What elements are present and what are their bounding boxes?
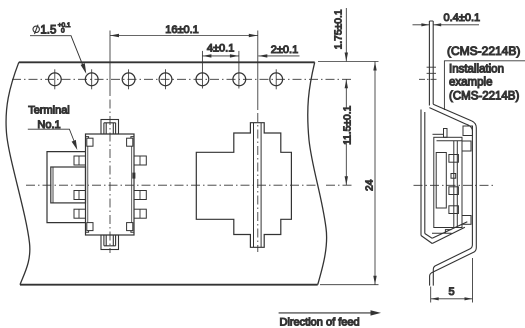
svg-text:0.4±0.1: 0.4±0.1 <box>444 12 481 24</box>
dimension 2±0.1 <box>258 55 299 57</box>
component 1 bottom stem <box>101 235 119 250</box>
side view: switch lever plate <box>436 153 446 209</box>
svg-text:24: 24 <box>364 179 375 191</box>
dimension 11.5±0.1 <box>345 79 347 185</box>
sprocket hole 1 <box>48 73 61 86</box>
side view: switch body <box>432 126 473 233</box>
component 1 right pins <box>134 156 146 165</box>
svg-text:2±0.1: 2±0.1 <box>271 44 298 56</box>
tape left break curve <box>6 62 30 284</box>
component 1 mid-right bump <box>132 173 135 179</box>
component 1 slide knob <box>51 167 86 203</box>
side view: sprocket hole centerline <box>419 78 438 80</box>
side view: right wall and bottom foot outer surface <box>430 121 477 286</box>
component 1 left pins <box>74 156 146 218</box>
dimension 24 <box>318 62 379 285</box>
tape right break curve <box>308 62 327 284</box>
component row centerline <box>26 184 354 186</box>
switch component 1 body <box>86 134 135 235</box>
side view: wall break ticks <box>427 67 436 73</box>
component 1 corner notch top-right <box>131 137 134 139</box>
svg-text:1.5: 1.5 <box>40 25 56 37</box>
side view: switch frame verticals <box>454 141 458 228</box>
side view: switch terminal squares <box>449 155 459 163</box>
component 1 left housing <box>47 152 86 223</box>
side view: right nubs <box>462 141 471 151</box>
component 2 stepped pocket outline <box>196 123 291 248</box>
direction of feed arrow <box>279 312 374 314</box>
svg-text:16±0.1: 16±0.1 <box>165 24 199 36</box>
sprocket hole 2 <box>85 73 98 86</box>
svg-text:(CMS-2214B): (CMS-2214B) <box>449 91 519 103</box>
svg-text:11.5±0.1: 11.5±0.1 <box>343 105 354 145</box>
svg-text:1.75±0.1: 1.75±0.1 <box>333 9 344 49</box>
side view: pocket floor <box>421 222 467 244</box>
side view: tape top wall 0.4 thick <box>419 21 476 286</box>
svg-text:Terminal: Terminal <box>28 104 70 116</box>
side view: pocket bottom step <box>432 230 452 234</box>
carrier tape top edge <box>19 61 315 63</box>
component 1 top stem <box>101 120 119 250</box>
dimension 4±0.1 <box>202 51 239 89</box>
svg-text:0: 0 <box>61 27 65 34</box>
svg-text:example: example <box>449 77 492 89</box>
side view: switch stem <box>444 129 448 138</box>
component 1 corner notch top-left <box>86 137 135 233</box>
label φ1.5 +0.1/0 with leader <box>33 26 39 32</box>
svg-text:Direction of feed: Direction of feed <box>280 316 360 328</box>
installation example box <box>444 61 525 110</box>
sprocket hole 4 <box>159 73 172 86</box>
carrier tape bottom edge <box>20 284 318 286</box>
side view: shoulder slant <box>429 104 471 124</box>
sprocket hole 5 <box>196 73 209 86</box>
svg-text:Installation: Installation <box>449 63 504 75</box>
sprocket-hole centerline <box>12 78 352 80</box>
dimension 5 <box>431 258 473 303</box>
component 1 corner notch bottom-left <box>86 231 89 233</box>
sprocket hole 6 <box>233 73 246 86</box>
component 2 inner column lines <box>254 123 262 248</box>
dimension 0.4±0.1 <box>413 24 480 26</box>
sprocket hole 7 <box>270 73 283 86</box>
component 1 corner notch bottom-right <box>131 231 134 233</box>
side view: pocket left wall <box>421 110 425 236</box>
side view: right wall and bottom foot inner surface <box>433 124 472 285</box>
svg-text:4±0.1: 4±0.1 <box>207 43 234 55</box>
dimension 16±0.1 <box>110 31 258 254</box>
sprocket hole 3 <box>122 73 135 86</box>
svg-text:(CMS-2214B): (CMS-2214B) <box>447 44 520 58</box>
dimension 1.75±0.1 <box>345 8 347 62</box>
svg-text:5: 5 <box>448 286 454 298</box>
side view: horizontal centerline <box>414 184 494 186</box>
